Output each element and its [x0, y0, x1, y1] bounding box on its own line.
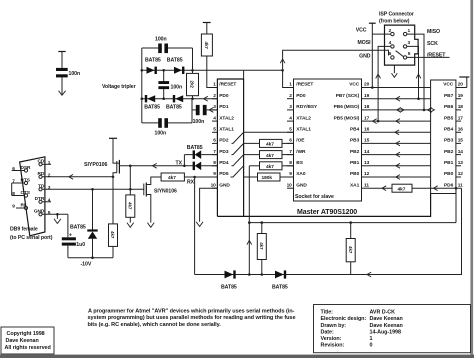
wire PD2 jog to slave XTAL1: [232, 132, 294, 143]
junction MISO drop on row18: [423, 109, 426, 112]
svg-text:5: 5: [213, 127, 216, 133]
wire BS bus vertical: [248, 166, 250, 275]
pin stub slave 16 PB4: [362, 131, 369, 133]
svg-text:PD6: PD6: [444, 182, 454, 188]
pin stub slave 6: [287, 142, 294, 144]
svg-text:Title:: Title:: [321, 310, 334, 316]
wire tripler left vertical: [141, 48, 143, 123]
wire TD to R11: [129, 189, 131, 195]
svg-text:1u0: 1u0: [76, 242, 85, 248]
svg-text:16: 16: [458, 127, 464, 133]
pin circle DB9 4 DTR: [39, 200, 42, 203]
arrowhead on row11 near slave: [382, 186, 386, 191]
junction R9 on bottom rail: [261, 273, 264, 276]
arrowhead up on GND riser: [280, 59, 285, 63]
junction BS bus on bottom rail: [248, 273, 251, 276]
svg-text:PD1: PD1: [219, 104, 229, 110]
resistor R2 4k7 pull-up: [201, 34, 212, 56]
svg-text:PB6: PB6: [444, 104, 454, 110]
pin stub U1 pin6: [212, 142, 217, 144]
svg-text:GND: GND: [219, 182, 230, 188]
svg-text:PD0: PD0: [296, 93, 306, 99]
svg-text:3: 3: [213, 104, 216, 110]
pin circle DB9 2 RD: [39, 175, 42, 178]
wire row11 slave XA1 to R7: [369, 187, 393, 189]
pin stub U1 pin14: [456, 154, 461, 156]
title block box: [314, 305, 471, 353]
diode D9 BAT85 (points up): [87, 229, 97, 231]
svg-text:DSR: DSR: [21, 165, 32, 171]
ground arrow under ISP: [392, 73, 398, 77]
ground arrow under Q2: [147, 223, 154, 228]
resistor R7 4k7: [392, 184, 412, 192]
svg-text:BAT85: BAT85: [144, 104, 160, 110]
svg-text:3: 3: [48, 185, 51, 191]
svg-text:CD: CD: [37, 159, 44, 165]
page border bottom band: [0, 355, 474, 358]
svg-text:PD4: PD4: [219, 160, 229, 166]
wire row12 slave PB0 to master: [369, 176, 431, 178]
svg-text:PB2: PB2: [444, 149, 454, 155]
pin stub slave 1: [287, 87, 294, 89]
svg-text:/RESET: /RESET: [219, 82, 236, 88]
junction D9 on rail: [91, 256, 94, 259]
svg-text:10: 10: [287, 182, 293, 188]
pin stub slave 18 PB6: [362, 109, 369, 111]
resistor R11 4k7 pulldown: [126, 195, 135, 217]
svg-text:PD5: PD5: [219, 171, 229, 177]
wire Q2 drain to R12: [146, 177, 161, 185]
pin circle DB9 1 CD: [39, 163, 42, 166]
svg-text:100n: 100n: [155, 131, 167, 137]
pin stub slave 14 PB2: [362, 154, 369, 156]
wire tripler right vertical top: [192, 48, 194, 70]
svg-text:4k7: 4k7: [110, 231, 115, 239]
junction 2k2 top on /RESET net: [191, 69, 194, 72]
svg-text:PB5 (MOSI): PB5 (MOSI): [334, 115, 360, 121]
svg-text:A programmer for Atmel "AVR" d: A programmer for Atmel "AVR" devices whi…: [88, 308, 295, 314]
svg-text:SCK: SCK: [427, 41, 438, 47]
svg-text:Drawn by:: Drawn by:: [321, 323, 347, 329]
svg-text:4: 4: [289, 115, 292, 121]
pin stub U1 pin17: [456, 120, 461, 122]
svg-text:TX: TX: [176, 161, 183, 167]
svg-text:4: 4: [48, 197, 51, 203]
svg-text:PB0: PB0: [444, 171, 454, 177]
svg-text:-10V: -10V: [81, 261, 92, 267]
svg-text:4: 4: [213, 115, 216, 121]
svg-text:Dave Keenan: Dave Keenan: [370, 316, 403, 322]
VCC power bar above Q1: [109, 137, 117, 139]
svg-text:6: 6: [12, 166, 15, 172]
junction row1 left: [141, 69, 144, 72]
svg-text:4k7: 4k7: [398, 186, 406, 192]
svg-text:PD2: PD2: [219, 138, 229, 144]
wire GND corner to C7: [67, 214, 69, 237]
junction TD to D9 branch: [91, 188, 94, 191]
pin stub slave 5: [287, 131, 294, 133]
wire ISP pin4 MOSI drop: [378, 46, 391, 121]
svg-text:14-Aug-1998: 14-Aug-1998: [370, 329, 401, 335]
svg-text:4k7: 4k7: [348, 246, 353, 254]
svg-text:DB9 female: DB9 female: [10, 227, 38, 233]
connector J1 DB9 body: [20, 157, 45, 236]
wire tripler bottom row: [142, 122, 192, 124]
pin circle DB9 3 TD: [39, 188, 42, 191]
svg-text:BS: BS: [296, 160, 303, 166]
arrowhead on row16: [395, 130, 399, 135]
svg-text:XTAL1: XTAL1: [219, 127, 234, 133]
wire RX drop to bottom rail: [194, 177, 196, 275]
resistor R4 4k7: [260, 151, 283, 159]
svg-text:AVR D-CK: AVR D-CK: [370, 310, 396, 316]
svg-text:5: 5: [48, 210, 51, 216]
wire R3 to slave /OE: [282, 142, 294, 144]
svg-text:4k7: 4k7: [204, 42, 209, 50]
transistor Q1 SIYP0106 channel: [118, 160, 120, 174]
svg-text:PD0: PD0: [219, 93, 229, 99]
op IC U1 master body (left column): [217, 79, 243, 216]
svg-text:8: 8: [12, 191, 15, 197]
svg-text:19: 19: [364, 93, 370, 99]
svg-text:Dave Keenan: Dave Keenan: [370, 323, 403, 329]
wire C1 to ground: [61, 77, 63, 95]
arrowhead on row17 near slave: [373, 119, 377, 124]
svg-text:GND: GND: [34, 209, 45, 215]
wire R2 to master pin 1 /RESET: [207, 56, 218, 88]
IC U1 master right column body: [431, 80, 456, 194]
svg-text:PD3: PD3: [219, 149, 229, 155]
pin circle ISP 5: [403, 56, 406, 59]
wire row13 slave PB1 to master: [369, 165, 431, 167]
svg-text:PB4: PB4: [444, 127, 454, 133]
svg-text:/OE: /OE: [296, 138, 305, 144]
wire TX from Q1 drain: [119, 165, 217, 167]
svg-text:1: 1: [48, 160, 51, 166]
svg-text:11: 11: [458, 182, 463, 188]
junction R10 top: [349, 221, 352, 224]
pin circle ISP 3: [403, 45, 406, 48]
svg-text:XTAL2: XTAL2: [296, 115, 311, 121]
svg-text:SIYN0106: SIYN0106: [154, 188, 177, 194]
svg-text:2: 2: [213, 93, 216, 99]
svg-text:PB1: PB1: [350, 160, 360, 166]
ground arrow under master GND: [196, 222, 203, 227]
wire R6 to slave XA0: [280, 176, 294, 178]
svg-text:7: 7: [12, 179, 15, 185]
junction R9 top: [261, 221, 264, 224]
wire VCC row20 slave to master: [369, 87, 431, 89]
pin stub U1 pin20: [456, 87, 467, 89]
svg-text:20: 20: [458, 82, 464, 88]
pin stub slave 12 PB0: [362, 176, 369, 178]
svg-text:BAT85: BAT85: [167, 58, 183, 64]
svg-text:TD: TD: [38, 184, 45, 190]
ground arrow under C1: [59, 91, 66, 96]
arrowhead on PD1 wire: [209, 108, 213, 113]
wire -10V rail: [68, 257, 113, 259]
svg-text:/WR: /WR: [296, 149, 306, 155]
pin stub U1 pin5: [212, 131, 217, 133]
svg-text:PB3: PB3: [350, 138, 360, 144]
wire PD0 row to master pin 2: [193, 98, 218, 100]
svg-text:100n: 100n: [171, 84, 183, 90]
wire R11 to ground: [129, 217, 131, 222]
svg-text:Socket for slave: Socket for slave: [295, 194, 334, 200]
pin stub U1 pin15: [456, 142, 461, 144]
svg-text:7: 7: [289, 149, 292, 155]
svg-text:BAT85: BAT85: [70, 224, 86, 230]
wire ISP pin3 SCK drop: [407, 46, 419, 98]
pin stub slave 8: [287, 165, 294, 167]
pin stub slave 10: [287, 187, 294, 189]
wire TD to N-FET gate: [42, 188, 144, 190]
junction TX to TD bridge: [129, 165, 132, 168]
wire lower bus horizontal: [249, 222, 456, 224]
wire row15 slave PB3 to master: [369, 142, 431, 144]
svg-text:Version:: Version:: [321, 336, 342, 342]
wire PD5 to R6: [231, 166, 258, 177]
wire ISP pin2 VCC drop: [372, 23, 390, 87]
junction row2 left: [141, 97, 144, 100]
wire /RESET drop to slave pin 1: [283, 70, 294, 87]
wire C7 to -10V rail: [67, 246, 69, 258]
svg-text:6: 6: [213, 138, 216, 144]
pin circle DB9 9 RI: [24, 206, 27, 209]
svg-text:3: 3: [289, 104, 292, 110]
wire bottom rail: [195, 188, 462, 274]
capacitor C1 100n decoupling: [56, 68, 68, 71]
svg-text:Date:: Date:: [321, 329, 334, 335]
svg-text:PB1: PB1: [444, 160, 454, 166]
arrowhead on row13: [396, 163, 400, 168]
capacitor C7 1u0 electrolytic: [62, 237, 76, 240]
svg-text:(to PC serial port): (to PC serial port): [10, 235, 53, 241]
ground arrow at DB9: [54, 219, 61, 224]
svg-text:PB6 (MISO): PB6 (MISO): [334, 104, 360, 110]
svg-text:3: 3: [408, 40, 411, 46]
pin circle DB9 6 DSR: [24, 169, 27, 172]
pin stub slave 20 VCC: [362, 87, 369, 89]
svg-text:13: 13: [458, 160, 464, 166]
svg-text:2: 2: [389, 28, 392, 34]
svg-text:RI: RI: [21, 202, 26, 208]
pin stub U1 pin18: [456, 109, 461, 111]
wire master top corner tie: [243, 70, 245, 79]
svg-text:BAT85: BAT85: [166, 104, 182, 110]
capacitor C3 100n (tripler middle): [158, 81, 169, 84]
svg-text:CTS: CTS: [21, 190, 31, 196]
svg-text:system programming) but uses p: system programming) but uses parallel me…: [88, 315, 296, 321]
junction row1 mid: [162, 69, 165, 72]
wire MOSI row17 slave to master: [369, 120, 431, 122]
svg-text:14: 14: [458, 149, 464, 155]
wire VCC to capacitor C1: [61, 52, 63, 68]
diode D3 BAT85 (row2 left, points left): [145, 95, 147, 102]
svg-text:7: 7: [213, 149, 216, 155]
pin stub U1 pin9: [212, 176, 217, 178]
svg-text:17: 17: [364, 115, 370, 121]
svg-text:DTR: DTR: [35, 196, 45, 202]
arrowhead up on SCK drop: [416, 74, 421, 78]
arrowhead on row19: [396, 96, 400, 101]
svg-text:2k2: 2k2: [190, 81, 195, 89]
arrowhead on RD wire: [69, 174, 73, 179]
pin stub U1 pin10: [212, 187, 217, 189]
capacitor C2 100n (tripler top): [158, 44, 162, 54]
svg-text:BAT85: BAT85: [187, 145, 203, 151]
pin stub slave 19 PB7: [362, 98, 369, 100]
wire R5 to slave BS: [282, 165, 294, 167]
svg-text:BAT85: BAT85: [145, 58, 161, 64]
pin stub slave 17 PB5: [362, 120, 369, 122]
pin stub U1 pin16: [456, 131, 461, 133]
wire TD branch down to D9: [92, 189, 94, 229]
junction PD6 at master right edge: [455, 187, 458, 190]
connector J3 ISP outline with notch: [385, 25, 419, 65]
svg-text:MOSI: MOSI: [357, 40, 371, 46]
diode D6 BAT85 (PD4 row, points left): [193, 162, 195, 171]
resistor R9 4k7 vertical: [261, 223, 263, 234]
svg-text:GND: GND: [296, 182, 307, 188]
resistor R12 4k7 (RX series): [161, 173, 184, 181]
arrowhead on PD0 wire: [204, 96, 208, 101]
wire D9 to -10V rail: [92, 239, 94, 258]
arrowhead pair on row18 at master: [428, 108, 435, 113]
diode D2 BAT85 (row1 right, points right): [174, 67, 182, 74]
svg-text:20: 20: [364, 82, 370, 88]
pin circle ISP 1: [403, 32, 406, 35]
pin stub U1 pin8: [212, 165, 217, 167]
wire Q2 source to ground: [146, 195, 151, 223]
wire TX down to TD row: [129, 166, 131, 190]
wire R12 to master PD5: [184, 176, 217, 178]
IC U1 master bottom edge: [217, 194, 430, 217]
pin stub slave 2: [287, 98, 294, 100]
pin stub DB9 1: [42, 163, 51, 165]
wire SCK row19 slave to master: [369, 98, 431, 100]
wire VCC to Q1 source: [113, 138, 119, 163]
svg-text:1: 1: [408, 28, 411, 34]
svg-text:100n: 100n: [69, 71, 81, 77]
wire PD6 drop to lower bus: [455, 188, 457, 222]
svg-text:11: 11: [364, 182, 369, 188]
socket J2 slave body: [294, 79, 362, 201]
junction GND arrow tap: [56, 213, 59, 216]
svg-text:SIYP0106: SIYP0106: [84, 162, 107, 168]
junction MOSI drop on row17: [377, 120, 380, 123]
svg-text:RTS: RTS: [21, 177, 31, 183]
svg-text:2: 2: [289, 93, 292, 99]
svg-text:bits (e.g. RC enable), which c: bits (e.g. RC enable), which cannot be d…: [88, 322, 222, 328]
resistor R3 4k7: [260, 139, 283, 147]
pin circle DB9 8 CTS: [24, 194, 27, 197]
arrowhead on row17 mid: [396, 119, 400, 124]
wire bracket RTS-CTS: [11, 183, 13, 196]
svg-text:PB4: PB4: [350, 127, 360, 133]
ground stub under ISP pin6: [393, 65, 395, 73]
page border right edge: [470, 0, 473, 358]
capacitor C4 100n (tripler bottom): [158, 118, 162, 128]
resistor R6 180k: [258, 173, 281, 181]
svg-text:PB7 (SCK): PB7 (SCK): [336, 93, 360, 99]
svg-text:(from below): (from below): [379, 18, 410, 24]
svg-text:XA1: XA1: [350, 182, 360, 188]
pin stub slave 9: [287, 176, 294, 178]
pin stub DB9 9: [16, 207, 24, 209]
svg-text:Revision:: Revision:: [321, 343, 345, 349]
arrowhead up on MOSI drop: [376, 74, 381, 78]
arrowhead on TX wire: [153, 163, 157, 168]
svg-text:1: 1: [370, 336, 373, 342]
junction row2 mid: [162, 97, 165, 100]
svg-text:10: 10: [211, 182, 217, 188]
resistor R1 2k2: [192, 70, 194, 98]
svg-text:BAT85: BAT85: [221, 285, 237, 291]
transistor Q1 gate plate: [116, 161, 118, 173]
svg-text:18: 18: [364, 104, 370, 110]
svg-text:PB0: PB0: [350, 171, 360, 177]
pin stub U1 pin3: [212, 109, 217, 111]
pin stub U1 pin4: [212, 120, 217, 122]
svg-text:XTAL2: XTAL2: [219, 115, 234, 121]
wire RD to P-FET gate: [42, 176, 112, 178]
wire R7 to master PD6: [412, 187, 462, 189]
arrowhead on row15: [396, 141, 400, 146]
resistor R10 4k7 vertical: [350, 223, 352, 239]
pin stub DB9 7: [12, 182, 25, 184]
wire ISP pin1 MISO drop: [407, 34, 424, 110]
pin stub slave 4: [287, 120, 294, 122]
pin circle DB9 7 RTS: [24, 181, 27, 184]
svg-text:RD: RD: [37, 171, 44, 177]
svg-text:9: 9: [12, 204, 15, 210]
wire ISP pin5 /RESET down right margin: [407, 56, 450, 58]
pin circle ISP 6: [391, 56, 394, 59]
svg-text:GND: GND: [359, 53, 371, 59]
arrowhead on row12: [396, 175, 400, 180]
diode D8 BAT85 (points right): [275, 271, 284, 279]
svg-text:XTAL1: XTAL1: [296, 127, 311, 133]
svg-text:4k7: 4k7: [259, 242, 264, 250]
svg-text:4k7: 4k7: [266, 142, 274, 148]
svg-text:15: 15: [364, 138, 370, 144]
svg-text:RX: RX: [187, 180, 195, 186]
pin stub U1 pin13: [456, 165, 461, 167]
svg-text:MISO: MISO: [427, 29, 440, 35]
svg-text:Dave Keenan: Dave Keenan: [6, 338, 39, 344]
svg-text:18: 18: [458, 104, 464, 110]
VCC power bar at master pin20: [466, 77, 468, 88]
svg-text:Copyright 1998: Copyright 1998: [7, 331, 45, 337]
svg-text:9: 9: [213, 171, 216, 177]
svg-text:/RESET: /RESET: [296, 82, 313, 88]
arrowhead on row11 near master: [434, 186, 438, 191]
pin circle DB9 5 GND: [39, 213, 42, 216]
wire tripler diode row 1: [142, 69, 193, 71]
transistor Q2 SIYN0106 channel: [145, 183, 147, 197]
svg-text:9: 9: [289, 171, 292, 177]
resistor R5 4k7: [260, 162, 283, 170]
svg-text:Voltage tripler: Voltage tripler: [102, 84, 136, 90]
diode D4 BAT85 (row2 right, points left): [173, 95, 175, 102]
pin stub U1 pin19: [456, 98, 461, 100]
svg-text:100n: 100n: [193, 119, 205, 125]
svg-text:4k7: 4k7: [266, 153, 274, 159]
junction BS bus on lower bus wire: [248, 221, 251, 224]
wire GND pin5 to C5: [42, 213, 68, 215]
svg-text:4: 4: [389, 40, 392, 46]
